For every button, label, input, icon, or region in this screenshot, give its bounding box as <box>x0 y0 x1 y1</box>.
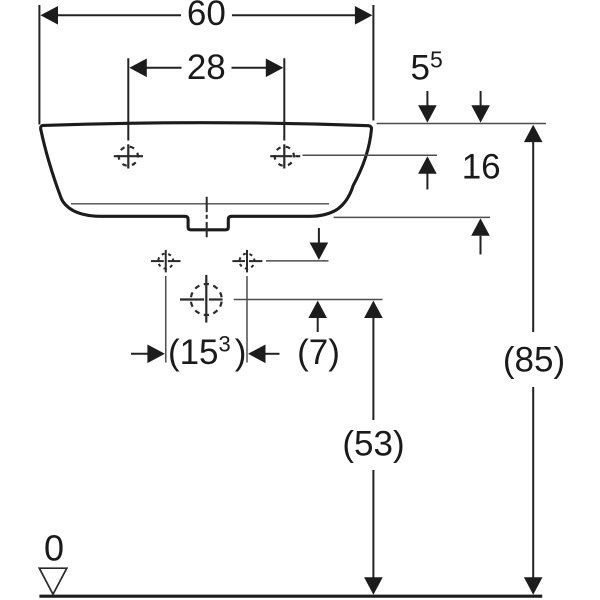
datum triangle (floor reference symbol) <box>39 568 67 594</box>
top arrowhead (up) <box>364 301 383 318</box>
fixing hole right (dashed circle with centre cross) <box>232 250 262 273</box>
lower arrowhead (up) <box>308 301 327 318</box>
bottom arrowhead (down) <box>364 577 383 594</box>
extension line right <box>372 5 374 121</box>
lower arrow stem <box>426 173 428 190</box>
reference line basin bottom <box>334 216 490 218</box>
lower arrowhead (up) <box>471 218 490 235</box>
svg-text:(85): (85) <box>503 340 565 379</box>
dimension (15^3) (fixing hole spacing) <box>131 332 280 373</box>
dimension (53) (drain height above floor) <box>342 301 404 595</box>
upper arrowhead (down) <box>418 105 437 122</box>
dimension line left segment <box>57 14 181 16</box>
svg-text:(7): (7) <box>297 333 340 372</box>
upper arrow stem <box>318 228 320 243</box>
svg-text:16: 16 <box>462 148 501 187</box>
upper arrow stem <box>426 91 428 106</box>
basin centre line (dash-dot) through outlet notch <box>206 197 208 238</box>
dimension (7) (fixing holes to drain) <box>297 228 340 372</box>
dimension line lower segment <box>532 387 534 578</box>
svg-text:(53): (53) <box>342 424 404 463</box>
lower arrow stem <box>480 236 482 255</box>
dimension line right segment <box>232 14 356 16</box>
arrowhead left <box>41 6 59 25</box>
svg-text:60: 60 <box>187 0 226 33</box>
arrowhead right <box>355 6 373 25</box>
extension line fixing hole left <box>165 276 167 363</box>
dimension line left segment <box>146 67 182 69</box>
upper arrowhead (down) <box>310 243 329 260</box>
dimension line lower segment <box>372 470 374 578</box>
right arrowhead (points left) <box>248 345 266 364</box>
extension line fixing hole right <box>246 276 248 363</box>
reference line drain height <box>234 299 383 301</box>
arrowhead right <box>266 59 284 78</box>
reference line tap hole height <box>303 154 438 156</box>
upper arrowhead (down) <box>471 105 490 122</box>
basin inner bottom edge line <box>71 203 329 205</box>
extension line left <box>127 58 129 140</box>
dimension line upper segment <box>372 318 374 421</box>
arrowhead left <box>129 59 147 78</box>
lower arrowhead (up) <box>418 156 437 173</box>
left leader line <box>131 353 148 355</box>
svg-text:0: 0 <box>44 528 64 569</box>
right leader line <box>265 353 280 355</box>
upper arrow stem <box>480 91 482 106</box>
dimension line right segment <box>232 67 267 69</box>
washbasin outline (front view) <box>41 123 372 230</box>
reference line rim top edge <box>377 123 547 125</box>
reference line fixing hole height <box>266 260 329 262</box>
bottom arrowhead (down) <box>524 577 543 594</box>
extension line right <box>283 58 285 140</box>
svg-text:28: 28 <box>187 48 226 87</box>
tap hole left (dashed circle with centre cross) <box>114 144 143 169</box>
dimension 5^5 (rim to tap hole) <box>411 47 443 190</box>
dimension (85) (rim height above floor) <box>503 125 565 595</box>
fixing hole left (dashed circle with centre cross) <box>151 250 181 273</box>
drain outlet (dashed circle with centre cross) <box>180 275 224 323</box>
dimension 28 (tap hole spacing) <box>128 48 284 141</box>
lower arrow stem <box>317 318 319 333</box>
tap hole right (dashed circle with centre cross) <box>270 144 300 169</box>
svg-text:(153): (153) <box>168 332 247 373</box>
dimension line upper segment <box>532 142 534 332</box>
left arrowhead (points right) <box>147 345 165 364</box>
dimension 16 (rim to basin bottom) <box>462 91 501 255</box>
dimension 60 (overall width) <box>39 0 373 125</box>
top arrowhead (up) <box>524 125 543 142</box>
extension line left <box>38 5 40 125</box>
floor line <box>39 595 542 598</box>
